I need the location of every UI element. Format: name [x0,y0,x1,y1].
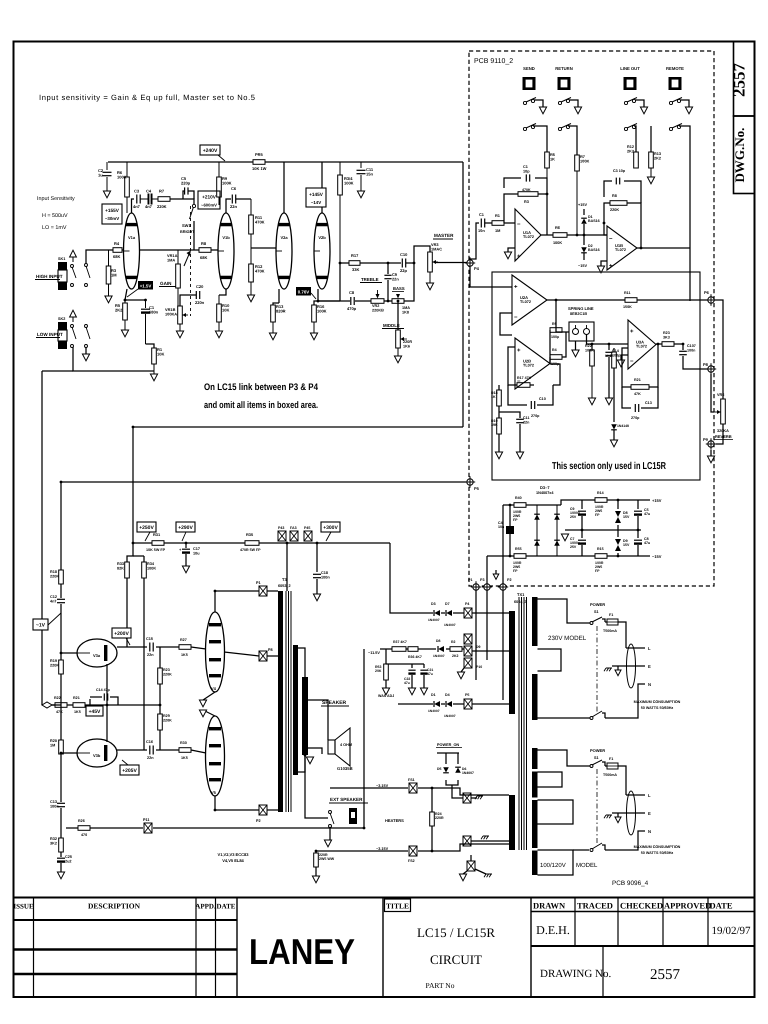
wire row A to TX [472,612,509,614]
diode D4148 [611,424,629,440]
ground left chain [57,872,64,879]
DWG number box 2557 [730,42,755,117]
wire NFB row [52,704,160,706]
resistor R6b [553,225,607,245]
wire NFB join [52,704,61,706]
mains cable upper [627,644,636,688]
ground P3 arrow [493,570,499,579]
jack SEND [523,66,536,90]
capacitor C15 [146,637,154,657]
resistor R12 [249,248,265,295]
svg-text:470: 470 [81,833,87,837]
svg-text:CHECKED: CHECKED [620,901,663,911]
wire HT row B [380,648,464,650]
TX core [519,597,527,850]
svg-text:C10: C10 [539,397,546,401]
resistor R7b [575,154,590,235]
svg-text:P2: P2 [507,578,512,582]
svg-text:D7: D7 [445,602,450,606]
resistor R33p [117,543,133,647]
label POWER S1 upper [590,602,605,614]
svg-text:MIDDLE: MIDDLE [383,323,400,328]
svg-text:100K: 100K [344,181,354,186]
wire AC feed 2 [487,556,514,586]
svg-text:P9: P9 [703,437,709,442]
switch S1b lower [590,843,605,852]
callout +205V [120,760,139,775]
ground R3 [105,296,112,303]
switch gang dashdot lower [596,769,598,844]
label D3-7 [536,485,554,495]
svg-text:1K: 1K [550,157,555,162]
capacitor C17 [179,543,200,566]
svg-text:4n7: 4n7 [50,599,57,603]
svg-text:1K8: 1K8 [402,310,409,314]
ground R10 [215,331,222,338]
svg-text:470p: 470p [347,306,357,311]
svg-text:+1.5V: +1.5V [140,283,152,288]
svg-text:47K: 47K [634,392,641,396]
svg-text:50 WATTS 50/60Hz: 50 WATTS 50/60Hz [641,706,674,710]
ground R19b [495,452,502,459]
wire mix to P6 [556,299,708,301]
svg-text:1N4007x4: 1N4007x4 [536,491,554,495]
svg-text:220K: 220K [163,672,172,676]
callout +250V [137,522,156,541]
ground C18 [313,594,320,601]
svg-text:8EB2C1B: 8EB2C1B [570,312,587,316]
jack RETURN [555,66,572,90]
wire 120V top [538,750,591,766]
cathode R13 [271,289,286,322]
svg-text:TL072: TL072 [523,364,534,368]
svg-text:+290V: +290V [178,525,193,531]
pot VR3 master [428,239,443,283]
svg-text:100n: 100n [321,575,330,579]
svg-text:TRACED: TRACED [577,901,613,911]
label POWER_ON [436,743,462,748]
callout -0.76V [296,287,316,299]
wire send column [533,126,547,152]
bridge diode 1 [534,514,540,520]
capacitor C1c [523,165,530,182]
switch LINE OUT upper [624,98,647,114]
svg-text:PCB 9110_2: PCB 9110_2 [474,58,513,65]
svg-text:6053_2: 6053_2 [278,584,291,588]
svg-text:FP: FP [513,518,518,522]
wire speaker feed [308,700,328,754]
wire V2b plate [321,162,323,213]
transformer T3 core [286,591,291,812]
label HEATERS [385,818,404,823]
svg-text:10K: 10K [222,308,229,313]
svg-text:Input sensitivity = Gain &: Input sensitivity = Gain & Eq up full, M… [39,93,255,102]
rail B+ 300V [133,542,390,544]
wire NFB vertical [41,371,43,705]
svg-text:2K2: 2K2 [452,654,458,658]
label 100/120V MODEL [540,862,598,869]
jack LINE OUT [620,66,640,90]
connector P4x [464,602,472,618]
svg-text:100K: 100K [553,241,562,245]
wire 230V top [538,599,591,623]
svg-text:22p: 22p [400,268,407,273]
capacitor C4 [498,505,514,556]
ground ext contacts [324,828,331,847]
switch S1b upper [590,760,605,768]
svg-text:R21: R21 [73,696,80,700]
svg-text:POWER: POWER [590,602,605,607]
op-amp U1A [515,209,541,261]
output tube V5 [206,716,225,796]
svg-text:R40: R40 [515,496,522,500]
labels LEN upper [648,646,651,687]
ground R13 [269,322,276,340]
resistor R5 [115,300,127,330]
svg-text:R15: R15 [597,547,604,551]
svg-text:P8: P8 [703,362,709,367]
svg-text:10n: 10n [498,525,504,529]
wire U2A in [470,267,512,287]
speaker jack bar [302,677,308,755]
TX primary 230V upper [532,597,538,646]
resistor R29g [158,705,172,750]
svg-text:DWG.No.: DWG.No. [732,128,747,183]
svg-text:P5: P5 [465,693,469,697]
resistor R12b [627,145,638,168]
svg-text:BRIGHT: BRIGHT [180,230,195,234]
svg-text:MAXIMUM CONSUMPTION: MAXIMUM CONSUMPTION [634,845,681,849]
diode D2b [581,235,599,260]
svg-text:C14 47p: C14 47p [96,688,111,692]
feedback U1B [604,181,641,248]
svg-text:V1b: V1b [222,235,230,240]
svg-text:1N4007: 1N4007 [433,654,445,658]
svg-text:+145V: +145V [309,192,324,197]
rail -15V [561,555,650,557]
svg-text:47u: 47u [644,541,650,545]
svg-text:This section only used in LC15: This section only used in LC15R [552,461,667,472]
svg-text:220n: 220n [195,300,205,305]
callout +300V [321,522,340,541]
switch SW1 bright [180,204,196,234]
resistor R35 [240,532,261,552]
label PCB 9110_2 [474,58,513,65]
label TX1 [514,592,527,604]
callout +155V ~30mV [102,204,122,224]
svg-text:SK2: SK2 [58,317,65,321]
svg-text:FS1: FS1 [408,778,415,782]
TX secondary lower [509,795,515,850]
op-amp U2A [512,275,547,325]
ground spring [572,341,579,357]
svg-text:2557: 2557 [730,63,749,98]
wire V5 plate [215,796,278,810]
svg-text:BAS16: BAS16 [588,248,600,252]
wire master wiper to P4 [435,262,468,264]
svg-text:TL072: TL072 [523,235,534,239]
svg-text:470R 5W FP: 470R 5W FP [240,548,261,552]
ground hatch P7h [475,869,492,877]
junction P5 [465,476,480,491]
svg-text:F1: F1 [609,613,613,617]
ground D4148 [610,440,617,447]
wire U2A out [547,299,556,301]
svg-text:100KA: 100KA [165,312,177,317]
transformer T3 label [278,577,291,588]
label MIDDLE [382,323,404,329]
svg-text:1K: 1K [491,395,496,399]
svg-text:R8: R8 [612,194,617,198]
dashed box PCB 9110_2 [469,51,714,586]
svg-text:R4: R4 [552,348,557,352]
svg-text:2K2: 2K2 [115,308,123,313]
resistor R23g [158,647,172,705]
svg-text:47K: 47K [56,710,63,714]
chassis arrow low [70,310,77,322]
ground speaker bar [305,755,314,764]
ground P7h arrow [459,871,467,881]
svg-text:POWER_ON: POWER_ON [437,743,459,747]
wire HT row C [398,703,464,705]
ground R1 [150,371,157,381]
svg-text:PR5: PR5 [255,152,264,157]
svg-text:R7: R7 [159,189,165,194]
resistor R21n [73,696,85,714]
note this section LC15R [552,461,667,472]
junction P9 [703,437,716,450]
mains cable lower [627,791,636,835]
bridge diode 3 [534,540,540,546]
svg-text:R19: R19 [50,659,57,663]
svg-text:10K: 10K [157,352,164,357]
wire V3 cathodes [106,664,108,742]
svg-text:V3a: V3a [93,653,101,658]
wire V4 plate [215,591,278,612]
svg-text:68K: 68K [113,254,120,259]
TX primary 120V bar [532,748,538,875]
svg-text:6064_3: 6064_3 [514,600,527,604]
capacitor C13g [50,800,65,838]
svg-text:EXT SPEAKER: EXT SPEAKER [330,797,363,802]
svg-text:470K: 470K [255,220,265,225]
resistor R27 [179,638,191,657]
wire bass to mid [398,263,414,330]
svg-text:320KA: 320KA [717,429,729,433]
svg-text:PCB 9096_4: PCB 9096_4 [612,880,649,887]
jack REMOTE [666,66,684,90]
diode D7 [444,602,456,627]
wire plate to tone [340,262,349,264]
gang dashes SW1-VR1B [190,206,192,316]
svg-text:220K: 220K [163,718,172,722]
wire V3b grid [61,752,77,754]
title text LC15 / LC15R [417,925,495,940]
svg-text:~1V: ~1V [36,623,46,629]
callout ~1V [33,613,61,630]
title text CIRCUIT [430,952,482,967]
resistor R4 [113,241,122,259]
svg-text:R8: R8 [201,241,207,246]
svg-text:FS2: FS2 [408,859,415,863]
wire V1b plate row [226,199,231,213]
svg-text:+: + [517,254,521,260]
svg-text:N: N [648,682,651,687]
zener D8 [615,500,630,530]
label 3.15V bot [376,847,389,851]
pot VR1B [165,306,188,331]
connector P11 [143,818,152,833]
switch SEND upper [523,98,546,114]
svg-text:+155V: +155V [105,208,120,213]
capacitor C14n [90,688,118,705]
svg-text:Input Sensitivity: Input Sensitivity [37,196,75,202]
jack SK1 high input [58,257,67,290]
wire V2a plate [283,162,285,213]
wire U1A out [541,234,553,236]
diode D3 [428,602,440,622]
svg-text:SK1: SK1 [58,257,65,261]
capacitor C2 [98,162,112,191]
resistor R17 [349,253,401,272]
svg-text:C15: C15 [146,637,153,641]
svg-text:+: + [630,329,634,335]
svg-text:C4: C4 [146,189,152,194]
capacitor C12 [50,595,65,653]
ground VR3 [426,283,433,290]
LANEY logo [249,931,355,972]
ground R53 [382,688,389,695]
label SPEAKER [321,700,349,706]
wire lineout column [634,126,636,152]
svg-text:−: − [609,237,613,243]
svg-text:22n: 22n [523,420,530,424]
resistor R16 [312,301,327,333]
svg-text:P1: P1 [468,578,473,582]
svg-text:L: L [648,646,651,651]
fuse F1 lower [603,757,626,795]
svg-text:100K: 100K [580,159,589,164]
tube V3b [77,739,117,767]
svg-text:TL072: TL072 [636,345,647,349]
tube V2a [276,213,292,289]
earth hatch lower [604,815,612,818]
svg-text:VR6: VR6 [717,393,724,397]
junction P8 [703,362,716,375]
ground humdinger [312,876,319,883]
capacitor C8 [634,530,650,556]
svg-text:SEND: SEND [523,66,535,71]
svg-text:+15V: +15V [578,203,587,207]
ground C2 [103,191,110,198]
svg-text:D5: D5 [437,767,442,771]
svg-text:APPD.: APPD. [195,903,216,911]
svg-text:D8: D8 [436,639,441,643]
svg-text:680n: 680n [149,310,159,315]
ground U3A [617,355,628,367]
TX primary 120V tap1 [538,772,563,787]
svg-text:TL072: TL072 [615,248,626,252]
svg-text:R32: R32 [50,837,57,841]
svg-text:100n: 100n [50,804,59,808]
connector P9x1 [464,634,472,644]
resistor R3b [518,188,538,204]
wire VR1A wiper to R8 [139,249,199,251]
svg-text:1M: 1M [111,273,117,278]
capacitor C9 [384,263,399,301]
junction P2b [498,578,512,593]
resistor R13b [649,126,661,177]
switch contacts low [71,325,91,348]
capacitor C11 [357,162,374,191]
ground V5 cathode [199,710,215,717]
svg-text:C12: C12 [50,595,57,599]
TITLE box [385,899,411,912]
svg-text:47u: 47u [427,672,433,676]
pot VR6 reverb [711,300,733,444]
svg-text:P11: P11 [143,818,150,822]
svg-text:P8: P8 [268,648,273,652]
svg-text:10K 1W: 10K 1W [252,166,267,171]
op-amp U3A [628,320,656,369]
resistor R18b [491,385,501,412]
svg-text:220K: 220K [50,663,59,667]
callout +145V ~14V [306,188,326,207]
svg-text:C16: C16 [146,740,153,744]
labels LEN lower [648,793,651,834]
svg-text:47u: 47u [644,512,650,516]
svg-text:−15V: −15V [578,264,587,268]
wire master top [414,246,430,263]
svg-text:T3: T3 [282,577,287,582]
wire row B to TX [472,650,509,652]
svg-text:C18: C18 [321,571,328,575]
title block headers [13,902,235,911]
wire input bottom to NFB [42,370,73,372]
earth arrow lower [615,813,621,823]
connector P44 [290,526,298,541]
svg-text:MAXIMUM CONSUMPTION: MAXIMUM CONSUMPTION [634,700,681,704]
wire U1B out [637,247,690,249]
svg-text:V1,V2,V3 ECC83: V1,V2,V3 ECC83 [218,852,250,857]
wire P4 to C1b [470,223,479,259]
capacitor C7 [570,530,586,556]
wire B+ rail 240V [108,162,463,427]
svg-text:1K5: 1K5 [74,710,81,714]
wire V1b cathode [180,289,226,306]
label TREBLE [360,277,382,283]
capacitor C5 [634,500,650,530]
junction V2b cathode [317,289,340,302]
svg-text:TREBLE: TREBLE [361,277,379,282]
svg-text:4n7: 4n7 [145,204,153,209]
svg-text:15n: 15n [366,172,373,177]
svg-text:0.76V: 0.76V [298,289,310,294]
capacitor C13b [622,387,658,420]
connector P9x3 [464,658,482,669]
wire V2a grid [251,247,276,249]
resistor R1b [492,213,515,233]
resistor R3 [106,250,117,296]
svg-text:39K: 39K [491,423,498,427]
capacitor C25g [57,855,72,872]
svg-text:S1: S1 [594,610,599,614]
svg-text:P10: P10 [476,665,482,669]
svg-text:47u: 47u [404,681,410,685]
svg-text:S1: S1 [594,756,599,760]
svg-text:FA3: FA3 [290,526,297,530]
svg-text:REVERB: REVERB [715,434,732,439]
